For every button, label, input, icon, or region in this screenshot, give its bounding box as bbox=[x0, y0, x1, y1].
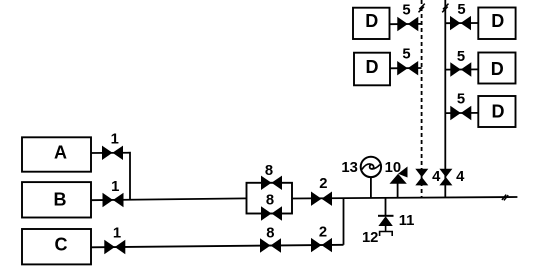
svg-text:5: 5 bbox=[402, 3, 410, 19]
svg-text:8: 8 bbox=[265, 163, 273, 179]
svg-text:4: 4 bbox=[456, 169, 465, 185]
svg-text:B: B bbox=[54, 190, 67, 210]
svg-text:8: 8 bbox=[266, 192, 274, 208]
svg-text:5: 5 bbox=[457, 49, 465, 65]
svg-text:8: 8 bbox=[266, 225, 274, 241]
svg-text:1: 1 bbox=[111, 179, 119, 195]
svg-text:1: 1 bbox=[113, 226, 121, 242]
svg-text:D: D bbox=[366, 57, 379, 77]
svg-text:13: 13 bbox=[341, 160, 357, 176]
svg-text:5: 5 bbox=[457, 2, 465, 18]
svg-text:4: 4 bbox=[432, 169, 441, 185]
svg-text:5: 5 bbox=[457, 92, 465, 108]
svg-text:D: D bbox=[492, 101, 505, 121]
svg-text:12: 12 bbox=[362, 230, 378, 246]
svg-text:2: 2 bbox=[319, 225, 327, 241]
svg-text:A: A bbox=[54, 143, 67, 163]
svg-text:10: 10 bbox=[385, 160, 401, 176]
svg-text:D: D bbox=[491, 59, 504, 79]
svg-text:D: D bbox=[365, 11, 378, 31]
svg-text:11: 11 bbox=[399, 213, 415, 229]
svg-text:D: D bbox=[491, 11, 504, 31]
svg-text:2: 2 bbox=[319, 176, 327, 192]
svg-text:C: C bbox=[55, 234, 68, 254]
svg-text:5: 5 bbox=[402, 47, 410, 63]
svg-text:1: 1 bbox=[111, 132, 119, 148]
